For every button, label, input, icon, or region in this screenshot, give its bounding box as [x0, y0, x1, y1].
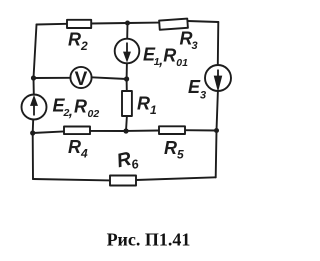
svg-text:R3: R3 [180, 28, 198, 52]
svg-text:R1: R1 [137, 94, 157, 118]
svg-text:E3: E3 [188, 77, 206, 102]
svg-text:Рис. П1.41: Рис. П1.41 [107, 230, 191, 250]
svg-text:R5: R5 [164, 138, 184, 162]
svg-text:V: V [75, 69, 88, 90]
svg-text:E2,R02: E2,R02 [53, 96, 100, 121]
svg-text:R4: R4 [68, 137, 88, 161]
svg-text:R6: R6 [115, 146, 141, 175]
svg-text:R2: R2 [68, 29, 88, 53]
